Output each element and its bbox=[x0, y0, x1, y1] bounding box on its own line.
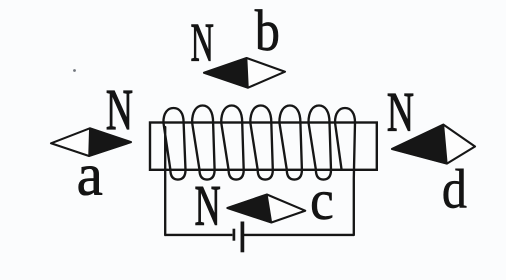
label N of compass a bbox=[107, 91, 132, 129]
wire (horizontal segment from battery to right lead) bbox=[244, 234, 354, 236]
wire (bottom-left horizontal segment from left lead to battery) bbox=[164, 234, 232, 236]
compass d (right of coil, N pole pointing left toward coil) bbox=[392, 125, 475, 164]
label d bbox=[444, 169, 467, 208]
label a bbox=[79, 166, 102, 195]
label N of compass b bbox=[192, 25, 213, 61]
stray printing speck bbox=[73, 69, 76, 72]
label b bbox=[255, 10, 278, 51]
label N of compass d bbox=[388, 94, 413, 131]
compass a (left of coil, N pole pointing right toward coil) bbox=[51, 128, 131, 156]
battery B1 long positive plate bbox=[241, 222, 245, 253]
battery B1 short negative plate bbox=[233, 229, 236, 241]
compass c (inside circuit loop below coil, N pole pointing left) bbox=[227, 195, 305, 223]
label c bbox=[312, 192, 332, 219]
coil L1 (solenoid winding: 7 turns with left and right leads) bbox=[163, 106, 355, 236]
core (iron core rectangle of solenoid) bbox=[150, 123, 377, 170]
compass b (above coil, N pole pointing left) bbox=[204, 58, 285, 88]
label N of compass c bbox=[196, 187, 220, 224]
